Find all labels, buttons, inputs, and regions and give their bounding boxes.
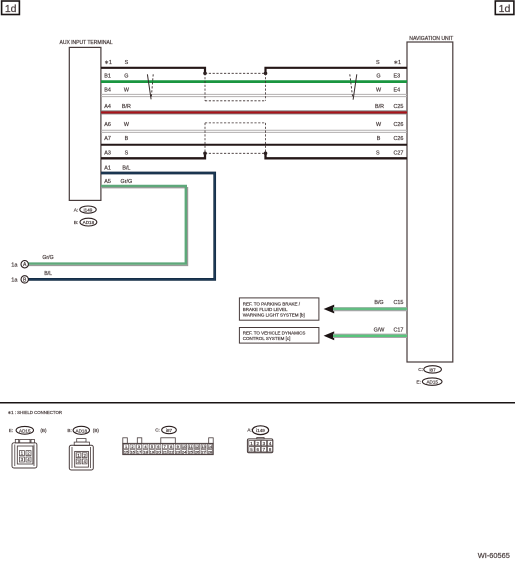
svg-text:12: 12	[195, 444, 200, 449]
svg-text:BRAKE FLUID LEVEL: BRAKE FLUID LEVEL	[243, 307, 288, 312]
svg-text:AD15: AD15	[19, 428, 31, 433]
svg-text:14: 14	[208, 444, 213, 449]
svg-text:A6: A6	[104, 122, 111, 128]
svg-text:B4: B4	[104, 88, 111, 94]
svg-text:A5: A5	[104, 179, 111, 185]
svg-text:1a: 1a	[11, 278, 18, 284]
svg-text:E:: E:	[416, 379, 421, 385]
svg-text:S: S	[376, 60, 380, 66]
svg-text:18: 18	[143, 449, 148, 454]
svg-text:∗1 : SHIELD CONNECTOR: ∗1 : SHIELD CONNECTOR	[8, 410, 63, 415]
svg-text:B/L: B/L	[44, 271, 52, 277]
svg-text:REF. TO PARKING BRAKE /: REF. TO PARKING BRAKE /	[243, 301, 301, 306]
svg-text:B/R: B/R	[122, 104, 131, 110]
svg-text:25: 25	[188, 449, 193, 454]
svg-text:C17: C17	[394, 328, 404, 334]
svg-text:1d: 1d	[5, 3, 17, 15]
svg-text:B:: B:	[67, 428, 71, 433]
svg-text:1a: 1a	[11, 263, 18, 269]
svg-text:S: S	[125, 60, 129, 66]
svg-text:C:: C:	[418, 367, 423, 373]
svg-text:27: 27	[201, 449, 206, 454]
svg-text:C26: C26	[394, 136, 404, 142]
svg-text:A4: A4	[104, 104, 111, 110]
svg-text:23: 23	[175, 449, 180, 454]
svg-text:∗1: ∗1	[394, 60, 402, 66]
svg-text:A3: A3	[104, 151, 111, 157]
svg-text:21: 21	[163, 449, 168, 454]
svg-text:AUX INPUT TERMINAL: AUX INPUT TERMINAL	[60, 40, 113, 46]
svg-text:28: 28	[208, 449, 213, 454]
svg-text:Gr/G: Gr/G	[121, 179, 133, 185]
svg-text:REF. TO VEHICLE DYNAMICS: REF. TO VEHICLE DYNAMICS	[243, 331, 306, 336]
svg-text:AD18: AD18	[76, 428, 88, 433]
svg-text:C:: C:	[155, 428, 160, 433]
svg-text:E3: E3	[394, 74, 401, 80]
svg-text:C15: C15	[394, 300, 404, 306]
svg-text:C27: C27	[394, 151, 404, 157]
svg-text:19: 19	[150, 449, 155, 454]
svg-text:i149: i149	[84, 208, 93, 213]
svg-text:E:: E:	[9, 428, 13, 433]
svg-text:S: S	[125, 151, 129, 157]
svg-text:B: B	[377, 136, 381, 142]
svg-text:10: 10	[182, 444, 187, 449]
svg-text:24: 24	[182, 449, 187, 454]
svg-text:AD15: AD15	[426, 379, 438, 384]
svg-text:G/W: G/W	[374, 328, 386, 334]
svg-text:G: G	[124, 74, 128, 80]
svg-text:B1: B1	[104, 74, 111, 80]
svg-text:AD18: AD18	[83, 220, 95, 225]
svg-text:(B): (B)	[93, 428, 100, 433]
svg-text:i149: i149	[256, 428, 265, 433]
svg-text:A7: A7	[104, 136, 111, 142]
svg-text:NAVIGATION UNIT: NAVIGATION UNIT	[409, 36, 453, 42]
svg-text:C25: C25	[394, 104, 404, 110]
svg-text:1d: 1d	[499, 3, 511, 15]
svg-text:G: G	[376, 74, 380, 80]
svg-text:16: 16	[130, 449, 135, 454]
svg-text:A:: A:	[74, 208, 79, 214]
svg-text:C26: C26	[394, 122, 404, 128]
svg-text:Gr/G: Gr/G	[42, 255, 53, 261]
svg-text:i87: i87	[166, 428, 173, 433]
svg-text:WARNING LIGHT SYSTEM [b]: WARNING LIGHT SYSTEM [b]	[243, 312, 305, 317]
svg-text:S: S	[376, 151, 380, 157]
svg-text:(B): (B)	[40, 428, 47, 433]
svg-text:B:: B:	[74, 220, 79, 226]
svg-text:B/G: B/G	[374, 300, 383, 306]
svg-text:B: B	[125, 136, 129, 142]
svg-text:15: 15	[124, 449, 129, 454]
svg-text:A1: A1	[104, 166, 111, 172]
svg-text:E4: E4	[394, 88, 401, 94]
svg-text:CONTROL SYSTEM [c]: CONTROL SYSTEM [c]	[243, 336, 291, 341]
svg-text:B/R: B/R	[375, 104, 384, 110]
svg-text:A:: A:	[247, 428, 251, 433]
svg-text:13: 13	[201, 444, 206, 449]
svg-text:17: 17	[137, 449, 142, 454]
svg-text:WI-60565: WI-60565	[478, 551, 510, 560]
svg-text:B/L: B/L	[122, 166, 130, 172]
svg-text:∗1: ∗1	[104, 60, 112, 66]
svg-text:i87: i87	[430, 367, 437, 372]
svg-text:22: 22	[169, 449, 174, 454]
svg-text:20: 20	[156, 449, 161, 454]
svg-text:26: 26	[195, 449, 200, 454]
